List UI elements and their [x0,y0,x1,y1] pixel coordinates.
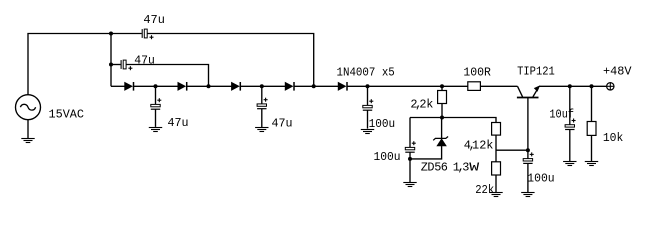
svg-text:2,2k: 2,2k [410,97,433,111]
wire C4 to ground [261,109,263,128]
svg-text:15VAC: 15VAC [49,108,85,122]
resistor R3 4.12k [492,123,501,136]
capacitor C7 100u [523,152,534,163]
wire to D1 [111,85,125,87]
resistor R5 10k [587,122,596,136]
junction output R5 [590,84,594,88]
wire D4 to D5 [294,85,338,87]
svg-text:4,12k: 4,12k [464,138,494,152]
wire to R5 [591,86,593,121]
ground G8 [563,162,576,166]
junction base [526,148,530,152]
junction N4 [312,84,316,88]
wire R1 to Q1 collector [481,85,518,87]
ground G5 [403,183,416,187]
capacitor C3 47u [151,98,162,109]
ground G2 [149,128,162,132]
wire row2 right [126,65,208,87]
svg-text:47u: 47u [168,116,189,130]
svg-text:47u: 47u [272,117,293,131]
wire N1 to C3 [155,86,157,104]
ground G1 [21,139,34,143]
wire R4 to ground [495,175,497,192]
wire row2 left [111,64,121,66]
junction top rail [109,32,113,36]
svg-text:TIP121: TIP121 [517,65,555,79]
junction N6 [440,84,444,88]
diode D5 [338,82,347,91]
transistor Q1 TIP121 [517,86,539,150]
wire base node to C7 [527,150,529,158]
wire V1 to ground [27,120,29,139]
svg-text:22k: 22k [475,183,494,197]
wire R3 to R4 [495,135,497,162]
junction row2 [109,63,113,67]
wire ZD56 anode [410,146,442,159]
wire divider to base node [496,149,528,151]
wire left column [110,34,112,87]
svg-text:100u: 100u [527,172,554,186]
svg-text:100R: 100R [463,65,491,79]
wire N6 to R2 [441,86,443,90]
capacitor C8 10uf [565,119,576,130]
junction N5 [366,84,370,88]
junction N3 [260,84,264,88]
wire N3 to C4 [261,86,263,104]
wire D2 to D3 [187,85,232,87]
svg-text:100u: 100u [374,150,401,164]
diode D1 [125,82,134,91]
wire top rail left [28,34,142,95]
wire D5 to R1 [347,85,468,87]
capacitor C6 100u [405,141,416,152]
wire D1 to D2 [134,85,178,87]
wire to C8 [569,86,571,124]
svg-text:1N4007 x5: 1N4007 x5 [337,65,395,79]
svg-text:10uf: 10uf [549,107,574,121]
junction mid rail [440,116,444,120]
wire C7 to ground [527,163,529,192]
ground G4 [361,130,374,134]
wire C5 to ground [367,110,369,128]
resistor R4 22k [492,162,501,175]
ground G9 [585,162,598,166]
capacitor C2 47u [121,60,132,70]
wire mid rail to ZD56 [441,118,443,139]
diode D2 [178,82,187,91]
AC source V1 15VAC [16,95,41,120]
wire C3 to ground [155,109,157,127]
junction output C8 [568,84,572,88]
capacitor C4 47u [257,98,268,109]
junction zener anode [408,157,412,161]
terminal +48V [607,83,614,90]
junction N1 [154,84,158,88]
svg-text:+48V: +48V [603,65,632,79]
diode D4 [285,82,294,91]
wire emitter to output [539,85,606,87]
wire R5 to ground [591,135,593,161]
capacitor C1 47u [142,29,153,39]
junction N2 [207,84,211,88]
wire mid rail [410,118,496,123]
capacitor C5 100u [363,99,374,110]
resistor R1 100R (horizontal box) [468,82,481,91]
resistor R2 2.2k [438,91,447,104]
wire C6 to ground [409,152,411,182]
zener diode ZD56 [433,137,448,146]
wire R2 to mid rail [441,104,443,118]
wire D3 to D4 [241,85,286,87]
svg-text:47u: 47u [134,54,155,68]
wire mid rail to C6 [409,118,411,148]
ground G6 [489,193,502,197]
wire C8 to ground [569,130,571,162]
wire top rail right [148,34,314,87]
ground G7 [521,193,534,197]
svg-text:100u: 100u [369,117,396,131]
ground G3 [255,128,268,132]
svg-text:47u: 47u [143,13,165,27]
diode D3 [232,82,241,91]
wire N5 to C5 [367,86,369,105]
svg-text:10k: 10k [603,131,623,145]
